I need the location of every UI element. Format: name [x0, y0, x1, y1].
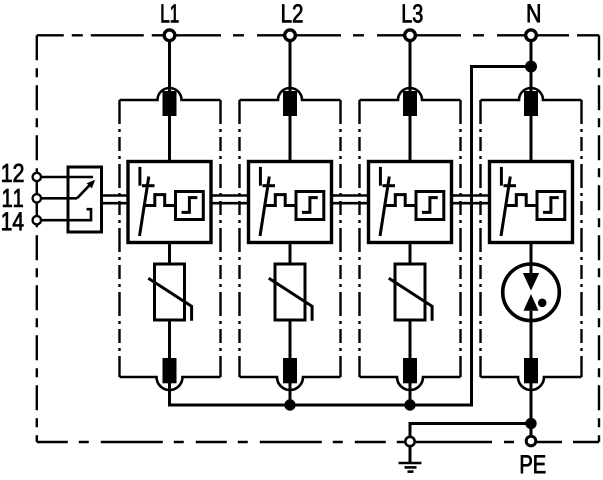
trigger signal bus upper line	[102, 194, 490, 197]
spark gap blade L3	[380, 177, 389, 237]
wire spark gap box to varistor L3	[409, 243, 412, 265]
left border solid segment joining signal terminals	[36, 171, 38, 226]
varistor L1	[155, 264, 185, 320]
spark gap contact stub L2	[259, 167, 262, 186]
module L1 boundary left dash-dot	[118, 100, 120, 377]
remote signalling changeover contact box	[68, 167, 102, 232]
spark gap contact stub L3	[379, 167, 382, 186]
module L2 boundary right dash-dot	[339, 100, 341, 377]
changeover contact arrowhead	[87, 180, 96, 189]
triggered spark gap box L3	[369, 162, 452, 243]
MODULE L1	[120, 40, 221, 390]
spark gap contact tick L1	[142, 184, 155, 187]
label 12	[2, 164, 23, 182]
thermal disconnector N (bottom)	[524, 358, 538, 383]
thermal disconnector L2 (top)	[283, 91, 297, 116]
earth symbol bar 2	[405, 466, 417, 469]
spark gap contact tick L3	[383, 184, 396, 187]
thermal disconnector L1 (top)	[163, 91, 177, 116]
N-PE spark gap top electrode	[523, 273, 539, 291]
spark gap contact stub L1	[138, 167, 141, 186]
module N boundary right dash-dot	[580, 100, 582, 377]
varistor diagonal L3	[389, 278, 432, 321]
MODULE L2	[240, 40, 341, 405]
wire spark gap box to N-PE gap	[530, 243, 533, 275]
wire disconnector to spark gap box L1	[168, 116, 171, 162]
trigger unit box L2	[296, 192, 324, 220]
N-PE spark gap circle	[503, 264, 560, 321]
terminal L2	[285, 30, 296, 41]
label 14	[2, 212, 23, 230]
varistor diagonal L1	[148, 278, 191, 321]
triggered spark gap box L2	[249, 162, 332, 243]
trigger staircase link N	[505, 195, 537, 206]
earth symbol bar 3	[408, 470, 414, 473]
module N boundary top with feed-through arc	[481, 88, 582, 100]
wire 11 to pivot	[42, 197, 77, 200]
varistor diagonal L2	[269, 278, 312, 321]
trigger step symbol N	[543, 198, 559, 213]
wire disconnector to spark gap box L2	[289, 116, 292, 162]
wire disconnector to spark gap box L3	[409, 116, 412, 162]
thermal disconnector L1 (bottom)	[163, 358, 177, 383]
label L2	[282, 4, 302, 22]
module N boundary bottom with feed-through arc	[481, 377, 582, 390]
terminal PE	[526, 436, 536, 446]
enclosure dash-dot border top	[37, 34, 599, 36]
module L1 boundary top with feed-through arc	[120, 88, 221, 100]
triggered spark gap box L1	[128, 162, 211, 243]
label PE	[521, 455, 545, 473]
varistor L3	[395, 264, 425, 320]
wire L1 terminal to disconnector	[168, 40, 171, 95]
spark gap contact tick L2	[263, 184, 276, 187]
trigger unit box L3	[416, 192, 444, 220]
module L2 boundary bottom with feed-through arc	[240, 377, 341, 390]
terminal 14	[33, 216, 41, 224]
module L3 boundary right dash-dot	[459, 100, 461, 377]
wire L2 terminal to disconnector	[289, 40, 292, 95]
junction dot N	[525, 61, 537, 73]
wire 14 to hook contact	[42, 209, 91, 220]
spark gap blade L2	[260, 177, 269, 237]
enclosure dash-dot border left	[36, 35, 38, 442]
changeover moving contact blade	[77, 184, 91, 199]
PE to earth link wire	[410, 424, 531, 437]
wire varistor to bottom disconnector L2	[289, 320, 292, 358]
spark gap contact tick N	[504, 184, 517, 187]
N-PE spark gap dot	[538, 299, 547, 308]
module N boundary left dash-dot	[479, 100, 481, 377]
trigger step symbol L3	[422, 198, 438, 213]
label 11	[3, 189, 23, 207]
varistor summation bus to N	[170, 67, 532, 406]
wire L2 to N bus	[289, 383, 292, 405]
trigger unit box L1	[176, 192, 204, 220]
terminal 12	[33, 173, 41, 181]
enclosure dash-dot border right	[598, 35, 600, 442]
trigger signal bus lower line	[102, 202, 490, 205]
junction dot L2 on bus	[284, 399, 295, 410]
module L3 boundary top with feed-through arc	[360, 88, 461, 100]
junction dot PE	[525, 418, 536, 429]
varistor L2	[275, 264, 305, 320]
module L1 boundary right dash-dot	[219, 100, 221, 377]
wire varistor to bottom disconnector L1	[168, 320, 171, 358]
wire L3 to N bus	[409, 383, 412, 405]
trigger step symbol L1	[182, 198, 198, 213]
trigger step symbol L2	[302, 198, 318, 213]
label L3	[403, 4, 423, 22]
thermal disconnector L2 (bottom)	[283, 358, 297, 383]
enclosure dash-dot border bottom	[37, 441, 599, 443]
thermal disconnector L3 (top)	[403, 91, 417, 116]
trigger staircase link L2	[264, 195, 296, 206]
label N	[528, 4, 540, 22]
module L2 boundary left dash-dot	[238, 100, 240, 377]
spark gap contact stub N	[500, 167, 503, 186]
module L2 boundary top with feed-through arc	[240, 88, 341, 100]
wire N terminal to disconnector	[530, 40, 533, 95]
module L3 boundary left dash-dot	[358, 100, 360, 377]
earth symbol stem	[409, 447, 412, 463]
terminal N	[526, 30, 537, 41]
earth symbol bar 1	[399, 462, 422, 465]
trigger staircase link L3	[384, 195, 416, 206]
trigger unit box N	[537, 192, 565, 220]
junction dot L3 on bus	[404, 399, 415, 410]
thermal disconnector L3 (bottom)	[403, 358, 417, 383]
wire 12 to fixed contact	[42, 176, 93, 179]
terminal L3	[405, 30, 416, 41]
label L1	[162, 5, 179, 23]
triggered spark gap box N	[490, 162, 573, 243]
wire spark gap box to varistor L1	[168, 243, 171, 265]
MODULE L3	[360, 40, 461, 405]
terminal 11	[33, 194, 41, 202]
spark gap blade N	[501, 177, 510, 237]
wire N module to PE terminal	[530, 383, 533, 436]
wire L3 terminal to disconnector	[409, 40, 412, 95]
spark gap blade L1	[140, 177, 149, 237]
thermal disconnector N (top)	[524, 91, 538, 116]
module L3 boundary bottom with feed-through arc	[360, 377, 461, 390]
terminal L1	[164, 30, 175, 41]
wire spark gap box to varistor L2	[289, 243, 292, 265]
wire N-PE gap to bottom disconnector	[530, 311, 533, 358]
N-PE spark gap wire inside top	[530, 264, 533, 275]
wire varistor to bottom disconnector L3	[409, 320, 412, 358]
MODULE N	[481, 40, 582, 436]
module L1 boundary bottom with feed-through arc	[120, 377, 221, 390]
trigger staircase link L1	[144, 195, 176, 206]
wire disconnector to spark gap box N	[530, 116, 533, 162]
earth terminal	[405, 437, 414, 446]
N-PE spark gap bottom electrode	[524, 294, 539, 311]
